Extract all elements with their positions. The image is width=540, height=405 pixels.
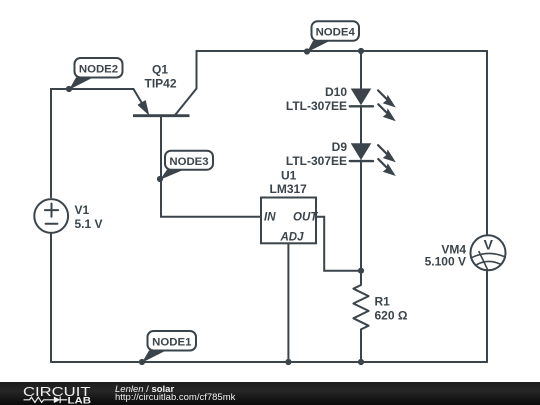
resistor R1 — [353, 271, 368, 362]
wire bottom rail NODE1 — [51, 361, 487, 363]
wire top rail NODE4 — [197, 51, 488, 89]
junction node OUT wire / R1 top — [358, 268, 364, 274]
svg-text:ADJ: ADJ — [280, 232, 305, 244]
svg-text:NODE1: NODE1 — [152, 337, 192, 349]
wire V1 bottom to bottom rail — [50, 233, 52, 362]
svg-text:LAB: LAB — [68, 395, 92, 405]
svg-text:R1: R1 — [375, 295, 391, 309]
svg-text:V: V — [484, 236, 494, 252]
wire VM4 to bottom rail — [486, 271, 488, 362]
svg-text:5.1 V: 5.1 V — [75, 217, 103, 231]
voltage source V1 — [34, 199, 68, 233]
svg-text:5.100 V: 5.100 V — [425, 255, 466, 269]
footer bar — [0, 382, 540, 405]
wire LED branch top rail to D10 — [360, 51, 362, 89]
svg-text:D9: D9 — [332, 140, 348, 154]
wire D10 to D9 — [360, 106, 362, 144]
svg-text:V1: V1 — [75, 203, 90, 217]
node NODE4 callout — [304, 21, 359, 54]
wire right branch rail to VM4 — [486, 51, 488, 235]
svg-text:Q1: Q1 — [152, 63, 168, 77]
wire Q1 base to U1 IN — [161, 117, 261, 217]
op-amp U1 LM317 box — [261, 198, 316, 244]
wire U1 OUT to R1 top junction — [316, 217, 361, 271]
svg-text:NODE4: NODE4 — [316, 27, 356, 39]
wire U1 ADJ to bottom rail — [287, 243, 289, 362]
svg-text:NODE2: NODE2 — [79, 64, 118, 76]
svg-text:NODE3: NODE3 — [169, 156, 208, 168]
svg-text:TIP42: TIP42 — [144, 77, 176, 91]
CircuitLab logo — [20, 382, 100, 405]
svg-text:D10: D10 — [325, 85, 347, 99]
svg-text:LM317: LM317 — [270, 182, 308, 196]
svg-text:LTL-307EE: LTL-307EE — [286, 99, 347, 113]
LED D9 — [350, 143, 396, 176]
transistor Q1 TIP42 — [133, 89, 197, 116]
footer credit line — [115, 384, 174, 395]
voltmeter VM4 — [471, 235, 506, 270]
footer url — [115, 392, 235, 403]
wire D9 to R1 junction — [360, 161, 362, 271]
node NODE1 callout — [139, 331, 196, 365]
junction node ADJ / bottom rail — [285, 359, 291, 365]
wire left vertical from NODE2 down to V1 — [51, 89, 134, 197]
svg-text:IN: IN — [264, 212, 276, 224]
svg-text:620 Ω: 620 Ω — [375, 309, 408, 323]
svg-text:LTL-307EE: LTL-307EE — [286, 154, 347, 168]
svg-text:U1: U1 — [281, 168, 297, 182]
node NODE2 callout — [66, 58, 123, 92]
junction node R1 / bottom rail — [358, 359, 364, 365]
LED D10 — [350, 89, 396, 122]
svg-text:OUT: OUT — [293, 212, 318, 224]
junction node on top rail at LED branch — [358, 48, 364, 54]
node NODE3 callout — [157, 151, 213, 182]
